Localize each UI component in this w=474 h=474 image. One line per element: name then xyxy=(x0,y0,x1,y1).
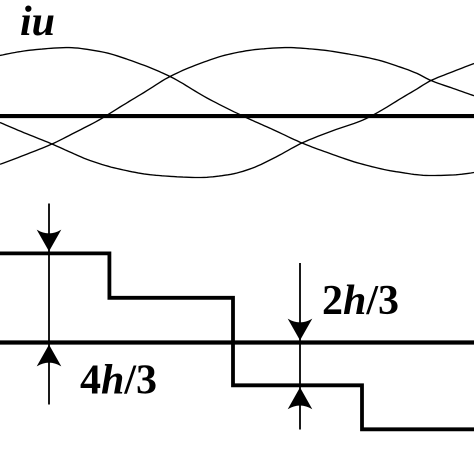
svg-text:2h/3: 2h/3 xyxy=(322,278,399,324)
svg-text:4h/3: 4h/3 xyxy=(80,358,157,404)
svg-text:iu: iu xyxy=(20,0,55,45)
